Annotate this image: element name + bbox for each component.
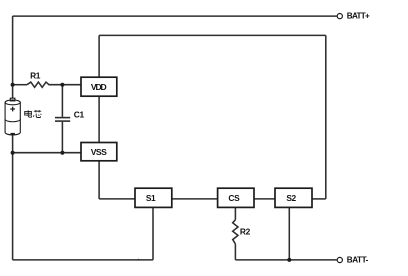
svg-text:VDD: VDD [91,82,107,92]
svg-text:R2: R2 [240,227,251,237]
svg-text:S1: S1 [146,193,156,203]
svg-text:BATT-: BATT- [347,256,369,265]
svg-text:BATT+: BATT+ [347,12,370,21]
svg-text:R1: R1 [30,70,41,80]
svg-text:VSS: VSS [91,147,107,157]
svg-text:C1: C1 [74,109,85,119]
svg-text:S2: S2 [286,193,296,203]
svg-text:CS: CS [228,193,240,203]
